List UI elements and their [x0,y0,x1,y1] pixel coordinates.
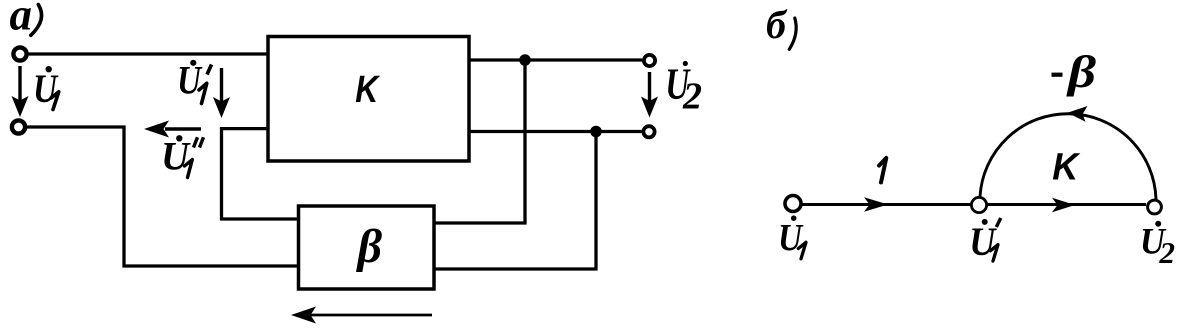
svg-text:U: U [177,58,203,103]
svg-text:U: U [161,133,191,178]
svg-text:β: β [1066,46,1097,97]
svg-text:2: 2 [682,76,702,118]
svg-text:2: 2 [1159,235,1176,270]
svg-text:β: β [356,220,383,273]
svg-text:U: U [778,217,804,259]
svg-text:K: K [355,69,380,111]
svg-text:a: a [10,0,33,40]
svg-text:б: б [766,2,788,47]
svg-text:K: K [1052,147,1080,189]
